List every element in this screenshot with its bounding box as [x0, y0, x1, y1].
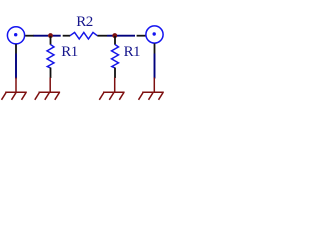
ground G2 under R1 left	[35, 78, 60, 100]
pin I1 bottom	[15, 44, 17, 53]
resistor R1 left bottom pin	[50, 68, 52, 78]
wire node 2 to I2	[117, 35, 135, 37]
wire R2 to node 2	[107, 35, 113, 37]
svg-text:R1: R1	[124, 44, 140, 60]
resistor R1 right bottom pin	[114, 68, 116, 78]
resistor R1 left zigzag body	[47, 45, 54, 68]
resistor R1 left top pin	[50, 36, 52, 45]
current source I2 circle	[146, 26, 163, 43]
pin I2 left	[137, 35, 146, 37]
wire I1 to node 1	[34, 35, 49, 37]
resistor R1 right zigzag body	[112, 45, 119, 68]
node 2 junction dot	[112, 33, 117, 38]
node 1 junction dot	[48, 33, 53, 38]
resistor R2 right pin	[97, 35, 107, 37]
ground G3 under R1 right	[99, 78, 124, 100]
svg-text:R2: R2	[76, 14, 92, 30]
resistor R2 left pin	[63, 35, 70, 37]
ground G4 under I2	[139, 78, 164, 100]
resistor R2 zigzag body	[70, 32, 97, 39]
svg-text:R1: R1	[61, 44, 77, 60]
current source I2 center dot	[153, 32, 156, 35]
ground G1 under I1	[2, 78, 27, 100]
resistor R1 right top pin	[114, 36, 116, 45]
wire I1 bottom to ground	[15, 54, 17, 79]
pin I1 right	[25, 35, 34, 37]
wire node 1 to R2	[53, 35, 61, 37]
wire I2 bottom to ground	[154, 54, 156, 79]
pin I2 bottom	[154, 43, 156, 53]
current source I1 center dot	[14, 33, 17, 36]
current source I1 circle	[7, 27, 24, 44]
